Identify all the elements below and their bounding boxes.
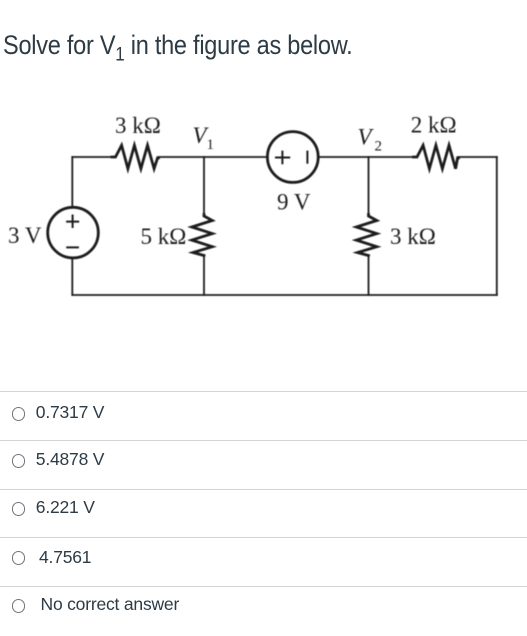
wire bottom [72, 294, 497, 296]
plus sign of 3V [67, 216, 78, 228]
svg-text:V: V [358, 125, 375, 150]
svg-text:3 kΩ: 3 kΩ [390, 224, 436, 249]
wire top-left segment [72, 156, 112, 158]
wire left rail lower [71, 258, 73, 295]
resistor R2 2k horizontal [414, 145, 459, 168]
wire node V2 branch lower [368, 256, 370, 296]
svg-text:5 kΩ: 5 kΩ [141, 224, 187, 249]
plus sign of 9V [276, 152, 289, 164]
wire right rail [496, 157, 498, 295]
wire source to V2 [318, 156, 413, 158]
resistor R4 3k vertical [356, 215, 377, 256]
minus bar of 9V [306, 152, 308, 163]
svg-text:3 kΩ: 3 kΩ [115, 113, 161, 138]
wire node V2 branch upper [368, 157, 370, 215]
svg-text:2 kΩ: 2 kΩ [411, 113, 457, 138]
wire V1 to source [159, 156, 268, 158]
wire node V1 branch upper [203, 157, 205, 215]
resistor R1 3k horizontal [112, 145, 159, 168]
wire to top-right corner [459, 156, 497, 158]
svg-text:3 V: 3 V [8, 223, 42, 248]
voltage source U1 3V circle [48, 207, 99, 258]
voltage source U2 9V circle [267, 132, 318, 183]
svg-text:9 V: 9 V [277, 190, 311, 215]
wire left rail upper [71, 157, 73, 207]
wire node V1 branch lower [203, 256, 205, 296]
resistor R3 5k vertical [192, 215, 213, 256]
svg-text:1: 1 [207, 137, 215, 153]
minus sign of 3V [67, 246, 78, 248]
svg-text:2: 2 [375, 139, 383, 155]
